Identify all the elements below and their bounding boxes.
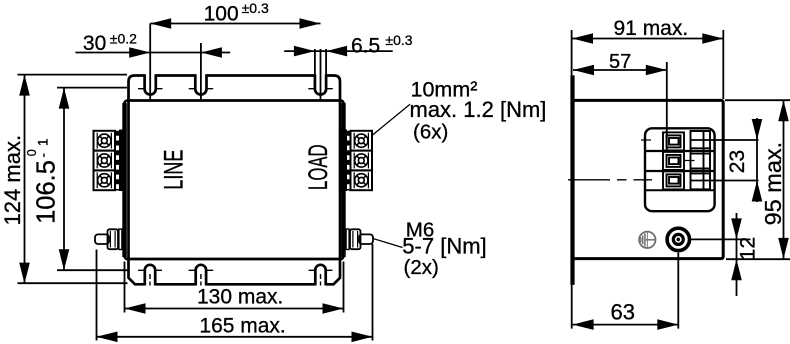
svg-text:±0.3: ±0.3 (242, 0, 269, 16)
svg-text:23: 23 (726, 150, 749, 173)
svg-text:91 max.: 91 max. (614, 17, 689, 40)
svg-text:106.5: 106.5 (33, 160, 61, 224)
svg-text:165 max.: 165 max. (199, 315, 285, 338)
svg-text:6.5: 6.5 (351, 35, 380, 58)
svg-text:±0.2: ±0.2 (110, 30, 137, 46)
svg-text:30: 30 (83, 32, 106, 55)
svg-text:12: 12 (736, 237, 759, 260)
svg-text:(2x): (2x) (404, 256, 439, 279)
svg-text:130 max.: 130 max. (197, 285, 283, 308)
svg-text:95 max.: 95 max. (760, 142, 786, 226)
svg-text:(6x): (6x) (413, 121, 448, 144)
svg-text:63: 63 (611, 300, 635, 325)
svg-text:LINE: LINE (159, 150, 189, 190)
svg-text:LOAD: LOAD (303, 144, 333, 190)
svg-text:5-7 [Nm]: 5-7 [Nm] (402, 234, 486, 259)
svg-text:57: 57 (609, 51, 631, 73)
svg-text:124 max.: 124 max. (0, 135, 25, 226)
svg-text:100: 100 (204, 3, 239, 26)
svg-text:±0.3: ±0.3 (385, 32, 412, 48)
svg-text:max. 1.2 [Nm]: max. 1.2 [Nm] (410, 97, 547, 122)
